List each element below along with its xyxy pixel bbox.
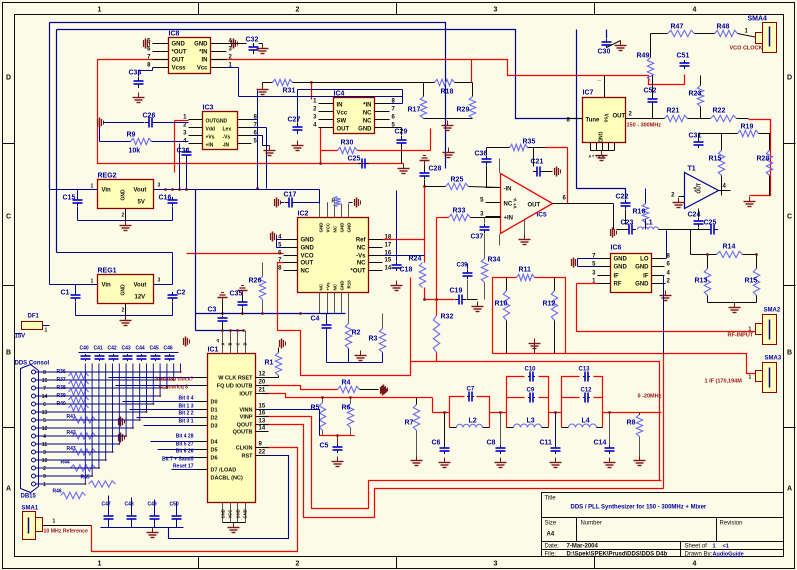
svg-text:T1: T1 [688, 166, 696, 173]
svg-text:+Vs: +Vs [326, 282, 331, 291]
svg-text:V+: V+ [693, 187, 698, 193]
svg-text:A T T E N: A T T E N [589, 155, 605, 159]
svg-text:C23: C23 [621, 220, 634, 227]
svg-text:C29: C29 [395, 129, 408, 136]
svg-text:C16: C16 [159, 195, 172, 202]
svg-text:C1: C1 [61, 290, 70, 297]
svg-text:R25: R25 [451, 177, 464, 184]
svg-text:C3: C3 [208, 307, 217, 314]
svg-text:NC: NC [363, 111, 372, 117]
svg-text:21: 21 [259, 388, 266, 394]
svg-text:1 IF (170,194M: 1 IF (170,194M [705, 379, 743, 385]
svg-text:SMA4: SMA4 [748, 16, 768, 23]
svg-text:1: 1 [713, 544, 716, 550]
svg-text:4: 4 [693, 7, 697, 14]
svg-text:QOUT: QOUT [237, 423, 254, 429]
svg-text:Size: Size [545, 521, 557, 527]
svg-text:REG2: REG2 [98, 173, 117, 180]
svg-text:D7 /LOAD: D7 /LOAD [211, 468, 237, 474]
svg-text:VCO CLOCK: VCO CLOCK [730, 46, 763, 52]
svg-text:C12: C12 [581, 388, 593, 394]
svg-text:C30: C30 [598, 49, 611, 56]
svg-text:R: R [332, 199, 336, 205]
svg-text:Bit 2 2: Bit 2 2 [178, 411, 193, 417]
svg-text:C13: C13 [579, 367, 591, 373]
svg-text:3: 3 [494, 561, 498, 568]
svg-text:IF: IF [614, 274, 620, 280]
svg-text:Reset 17: Reset 17 [173, 464, 194, 470]
svg-text:W CLK RSET: W CLK RSET [218, 376, 253, 382]
svg-text:C46: C46 [164, 346, 173, 352]
svg-text:D3: D3 [211, 424, 218, 430]
svg-text:R26: R26 [249, 278, 262, 285]
svg-text:11: 11 [42, 442, 48, 448]
svg-text:GND: GND [301, 238, 315, 244]
svg-text:GND: GND [614, 257, 628, 263]
svg-text:OUT: OUT [528, 203, 541, 209]
svg-text:+IN: +IN [504, 216, 514, 222]
svg-text:C6: C6 [432, 440, 441, 447]
svg-text:Bit 5 27: Bit 5 27 [176, 442, 194, 448]
svg-text:14: 14 [385, 266, 392, 272]
svg-text:GND: GND [121, 189, 127, 201]
svg-text:4: 4 [693, 561, 697, 568]
svg-text:C39: C39 [457, 263, 469, 269]
svg-text:C2: C2 [177, 290, 186, 297]
svg-text:12: 12 [259, 372, 266, 378]
svg-text:R8: R8 [627, 420, 636, 427]
svg-text:15: 15 [42, 378, 48, 384]
svg-text:GND: GND [597, 132, 603, 144]
svg-text:R31: R31 [283, 88, 296, 95]
svg-text:L3: L3 [527, 418, 535, 425]
svg-text:DDS / PLL Synthesizer for 150: DDS / PLL Synthesizer for 150 - 300MHz +… [571, 505, 707, 511]
svg-text:C15: C15 [63, 195, 76, 202]
svg-text:Bit 4 28: Bit 4 28 [176, 434, 194, 440]
svg-text:C49: C49 [148, 502, 157, 508]
svg-text:14: 14 [42, 394, 48, 400]
svg-text:SMA2: SMA2 [764, 308, 781, 314]
svg-text:NC: NC [301, 269, 310, 275]
svg-text:GND: GND [319, 222, 324, 233]
svg-text:4: 4 [43, 434, 46, 440]
svg-text:R30: R30 [341, 140, 354, 147]
svg-text:SMA1: SMA1 [22, 506, 39, 512]
svg-text:R9: R9 [127, 132, 136, 139]
svg-text:5: 5 [43, 418, 46, 424]
svg-text:load dau clock?: load dau clock? [156, 377, 194, 383]
svg-text:NC: NC [504, 202, 513, 208]
svg-text:GND: GND [347, 222, 352, 233]
svg-text:NC: NC [357, 261, 366, 267]
svg-text:OUT: OUT [337, 127, 350, 133]
svg-text:NC: NC [357, 246, 366, 252]
svg-text:C28: C28 [429, 166, 442, 173]
svg-text:D1: D1 [211, 408, 218, 414]
svg-text:C25: C25 [704, 220, 717, 227]
svg-text:GND: GND [236, 509, 241, 518]
svg-text:GND: GND [358, 127, 372, 133]
svg-text:NC: NC [319, 283, 324, 290]
svg-text:FQ UD IOUTB: FQ UD IOUTB [217, 384, 253, 390]
svg-text:12V: 12V [135, 295, 146, 301]
svg-text:D2: D2 [211, 416, 218, 422]
svg-text:Lex: Lex [223, 127, 232, 133]
svg-text:R29: R29 [457, 107, 470, 114]
svg-text:Drawn By:: Drawn By: [685, 552, 713, 558]
svg-text:SMA3: SMA3 [765, 356, 782, 362]
svg-text:R19: R19 [741, 124, 754, 131]
svg-text:VCO: VCO [301, 254, 314, 260]
svg-text:*OUT: *OUT [172, 50, 187, 56]
svg-text:Revision: Revision [720, 521, 743, 527]
svg-text:RST: RST [242, 454, 254, 460]
svg-text:GND: GND [121, 284, 127, 296]
svg-text:Vout: Vout [134, 283, 147, 289]
svg-text:R23: R23 [689, 91, 702, 98]
svg-text:6: 6 [43, 402, 46, 408]
svg-text:R17: R17 [408, 107, 421, 114]
svg-text:L4: L4 [582, 418, 590, 425]
svg-text:R1: R1 [265, 360, 274, 367]
svg-text:IC8: IC8 [169, 31, 180, 38]
svg-text:R21: R21 [667, 108, 680, 115]
svg-text:Tune: Tune [586, 118, 601, 124]
svg-text:LO: LO [640, 257, 649, 263]
svg-text:OUT: OUT [613, 114, 626, 120]
svg-text:Vdd: Vdd [206, 127, 215, 133]
svg-text:12: 12 [42, 426, 48, 432]
svg-text:R24: R24 [409, 256, 422, 263]
svg-text:Date:: Date: [545, 544, 560, 550]
svg-text:IC2: IC2 [298, 211, 309, 218]
svg-text:R28: R28 [757, 156, 770, 163]
svg-text:15: 15 [385, 258, 392, 264]
svg-text:17: 17 [385, 243, 392, 249]
svg-text:C48: C48 [125, 502, 134, 508]
svg-text:3: 3 [158, 183, 161, 189]
svg-text:1: 1 [98, 561, 102, 568]
svg-text:C51: C51 [677, 53, 690, 60]
svg-text:C27: C27 [288, 117, 301, 124]
svg-text:R13: R13 [695, 278, 708, 285]
svg-text:Vcc: Vcc [197, 66, 208, 72]
svg-text:C52: C52 [644, 88, 657, 95]
svg-text:IC6: IC6 [611, 245, 622, 252]
svg-text:GND: GND [340, 222, 345, 233]
svg-text:R5: R5 [311, 405, 320, 412]
svg-text:C11: C11 [540, 440, 553, 447]
svg-text:13: 13 [259, 419, 266, 425]
svg-text:C9: C9 [527, 388, 535, 394]
svg-text:VINN: VINN [239, 408, 252, 414]
svg-text:CLKIN: CLKIN [236, 446, 253, 452]
svg-text:C44: C44 [136, 346, 145, 352]
svg-text:R11: R11 [519, 267, 532, 274]
svg-text:C7: C7 [467, 387, 475, 393]
svg-text:B: B [228, 342, 233, 345]
svg-text:8: 8 [43, 370, 46, 376]
svg-text:GND: GND [635, 265, 649, 271]
svg-text:2: 2 [122, 213, 125, 219]
svg-text:Bit 6 26: Bit 6 26 [176, 449, 194, 455]
svg-text:C37: C37 [471, 234, 484, 241]
svg-text:GND: GND [221, 509, 226, 518]
svg-text:D4: D4 [211, 440, 219, 446]
svg-text:DACBL (NC): DACBL (NC) [211, 476, 243, 482]
svg-text:13: 13 [42, 410, 48, 416]
svg-text:C: C [236, 342, 241, 345]
svg-text:RF-INPUT: RF-INPUT [728, 333, 754, 339]
svg-text:GND: GND [340, 280, 345, 291]
svg-text:D:\Spek\SPEK\Prusd\DDS\DDS D4b: D:\Spek\SPEK\Prusd\DDS\DDS D4b [567, 552, 668, 558]
svg-text:D: D [787, 75, 792, 82]
svg-text:VCC: VCC [228, 510, 233, 519]
svg-text:2: 2 [296, 561, 300, 568]
svg-text:RF: RF [614, 282, 622, 288]
svg-text:2: 2 [296, 7, 300, 14]
svg-text:DB15: DB15 [21, 494, 37, 500]
svg-text:-IN: -IN [504, 187, 512, 193]
svg-text:2: 2 [43, 466, 46, 472]
svg-text:3: 3 [43, 450, 46, 456]
svg-text:R35: R35 [523, 139, 536, 146]
svg-text:R6: R6 [342, 405, 351, 412]
svg-text:1: 1 [91, 279, 94, 285]
svg-text:C40: C40 [80, 346, 89, 352]
svg-text:OUT: OUT [172, 58, 185, 64]
svg-text:C5: C5 [320, 443, 329, 450]
svg-text:R34: R34 [488, 257, 501, 264]
svg-text:7: 7 [43, 386, 46, 392]
svg-text:L2: L2 [469, 418, 477, 425]
svg-text:1: 1 [749, 375, 752, 381]
svg-text:15V: 15V [15, 334, 26, 340]
svg-text:-Vs: -Vs [356, 254, 366, 260]
svg-text:C26: C26 [143, 113, 156, 120]
svg-text:C10: C10 [525, 367, 537, 373]
svg-text:D: D [6, 75, 11, 82]
svg-text:C18: C18 [400, 267, 413, 274]
svg-text:-IN: -IN [223, 143, 230, 149]
svg-text:C8: C8 [487, 440, 496, 447]
svg-text:NC: NC [333, 283, 338, 290]
svg-text:_: _ [597, 76, 602, 82]
svg-text:R46: R46 [53, 489, 62, 495]
svg-text:B: B [6, 350, 11, 357]
svg-text:22: 22 [259, 450, 266, 456]
svg-text:Vin: Vin [102, 283, 112, 289]
svg-text:R15: R15 [745, 278, 758, 285]
svg-text:3: 3 [158, 278, 161, 284]
svg-text:<1: <1 [723, 544, 729, 550]
svg-text:IC4: IC4 [334, 91, 345, 98]
svg-text:AudioGuide: AudioGuide [713, 552, 744, 558]
svg-text:R49: R49 [637, 53, 650, 60]
svg-text:C41: C41 [94, 346, 103, 352]
svg-text:GND: GND [614, 265, 628, 271]
svg-text:C17: C17 [284, 192, 297, 199]
svg-text:R32: R32 [441, 314, 454, 321]
svg-text:IF: IF [643, 274, 649, 280]
svg-text:R48: R48 [717, 24, 730, 31]
svg-text:A: A [787, 486, 792, 493]
svg-text:1: 1 [45, 328, 48, 334]
svg-text:IOUT: IOUT [239, 392, 253, 398]
svg-text:SW: SW [337, 119, 347, 125]
svg-text:*IN: *IN [199, 50, 207, 56]
svg-text:150 - 300MHz: 150 - 300MHz [627, 123, 662, 129]
svg-text:IC3: IC3 [203, 105, 214, 112]
svg-text:R7: R7 [405, 420, 414, 427]
svg-text:R16: R16 [633, 209, 646, 216]
svg-text:D5: D5 [211, 448, 218, 454]
svg-text:0 -20MHz: 0 -20MHz [638, 394, 662, 400]
svg-text:C35: C35 [230, 291, 243, 298]
svg-text:20: 20 [259, 380, 266, 386]
svg-text:10: 10 [42, 458, 48, 464]
svg-text:C42: C42 [108, 346, 117, 352]
svg-text:R14: R14 [723, 244, 736, 251]
svg-text:NC: NC [363, 119, 372, 125]
svg-text:C50: C50 [170, 502, 179, 508]
svg-text:16: 16 [259, 411, 266, 417]
svg-text:C19: C19 [450, 288, 463, 295]
svg-text:Number: Number [581, 521, 602, 527]
svg-text:C47: C47 [102, 502, 111, 508]
svg-text:REG1: REG1 [98, 268, 117, 275]
svg-text:D6: D6 [211, 456, 218, 462]
svg-text:GND: GND [243, 509, 248, 518]
svg-text:A: A [6, 486, 11, 493]
svg-text:Bit 7 + Sand5: Bit 7 + Sand5 [162, 457, 194, 463]
svg-text:Bit 0 4: Bit 0 4 [178, 396, 193, 402]
svg-text:Vin: Vin [102, 188, 112, 194]
svg-text:A4: A4 [547, 532, 555, 538]
svg-text:3: 3 [494, 7, 498, 14]
svg-text:C36: C36 [475, 151, 488, 158]
svg-text:C45: C45 [150, 346, 159, 352]
svg-text:C34: C34 [177, 148, 190, 155]
svg-text:Vcc: Vcc [337, 111, 348, 117]
svg-text:C: C [6, 214, 11, 221]
svg-text:10 MHz Reference: 10 MHz Reference [44, 529, 89, 535]
svg-text:D: D [243, 342, 248, 345]
svg-text:sc,ucw/lcq 8: sc,ucw/lcq 8 [159, 385, 189, 391]
svg-text:Ref: Ref [356, 238, 367, 244]
svg-text:D0: D0 [211, 400, 218, 406]
svg-text:IN: IN [202, 58, 208, 64]
svg-text:R12: R12 [543, 301, 556, 308]
svg-text:V+ V-: V+ V- [513, 197, 518, 209]
svg-text:C4: C4 [311, 316, 320, 323]
svg-text:GND: GND [635, 282, 649, 288]
svg-text:5V: 5V [138, 200, 145, 206]
svg-text:IC5: IC5 [537, 212, 548, 219]
svg-text:GND: GND [172, 42, 186, 48]
svg-text:C25: C25 [348, 156, 361, 163]
svg-text:VCC: VCC [326, 222, 331, 232]
svg-text:Sheet of: Sheet of [685, 544, 708, 550]
svg-text:A: A [221, 342, 226, 345]
svg-text:C21: C21 [531, 159, 544, 166]
svg-text:9: 9 [43, 474, 46, 480]
svg-text:GND: GND [194, 42, 208, 48]
svg-text:R33: R33 [453, 208, 466, 215]
svg-text:q: q [217, 338, 220, 343]
svg-text:Vss: Vss [603, 114, 609, 123]
svg-text:Vcss: Vcss [172, 66, 187, 72]
svg-text:Bit 1 3: Bit 1 3 [178, 404, 193, 410]
svg-text:R18: R18 [441, 89, 454, 96]
svg-text:+Vs: +Vs [206, 135, 215, 141]
svg-text:C14: C14 [594, 440, 607, 447]
svg-text:R47: R47 [671, 24, 684, 31]
svg-text:1: 1 [91, 184, 94, 190]
svg-text:GND: GND [301, 246, 315, 252]
svg-text:NC: NC [333, 225, 338, 232]
svg-text:1: 1 [98, 7, 102, 14]
svg-text:OUTGND: OUTGND [206, 119, 228, 125]
svg-text:7-Mar-2004: 7-Mar-2004 [567, 544, 599, 550]
svg-text:C22: C22 [616, 194, 629, 201]
svg-text:15: 15 [259, 404, 266, 410]
svg-text:C43: C43 [122, 346, 131, 352]
svg-text:1: 1 [43, 482, 46, 488]
svg-text:C: C [787, 214, 792, 221]
svg-text:R22: R22 [713, 108, 726, 115]
svg-text:Title: Title [545, 496, 557, 502]
svg-text:1: 1 [53, 519, 56, 525]
svg-text:VINP: VINP [240, 415, 253, 421]
svg-text:*IN: *IN [363, 103, 371, 109]
svg-text:QOUTB: QOUTB [233, 430, 253, 436]
svg-text:Vout: Vout [134, 188, 147, 194]
svg-text:B: B [787, 350, 792, 357]
svg-text:R2: R2 [352, 330, 361, 337]
svg-text:OUT: OUT [301, 261, 314, 267]
svg-text:IC7: IC7 [583, 90, 594, 97]
svg-text:R15: R15 [709, 156, 722, 163]
svg-text:C32: C32 [246, 37, 259, 44]
svg-text:R4: R4 [342, 380, 351, 387]
svg-text:*OUT: *OUT [351, 269, 366, 275]
svg-text:+IN: +IN [206, 143, 214, 149]
svg-text:14: 14 [259, 426, 266, 432]
svg-text:Bit 3 1: Bit 3 1 [178, 419, 193, 425]
svg-text:R10: R10 [495, 301, 508, 308]
svg-text:IC1: IC1 [208, 347, 219, 354]
svg-text:DF1: DF1 [28, 314, 40, 320]
svg-text:10k: 10k [129, 148, 141, 155]
svg-text:2: 2 [122, 308, 125, 314]
svg-text:-Vs: -Vs [223, 135, 231, 141]
svg-text:R16: R16 [347, 280, 352, 289]
svg-text:IN: IN [337, 103, 343, 109]
svg-text:R3: R3 [369, 336, 378, 343]
svg-text:File:: File: [545, 552, 557, 558]
